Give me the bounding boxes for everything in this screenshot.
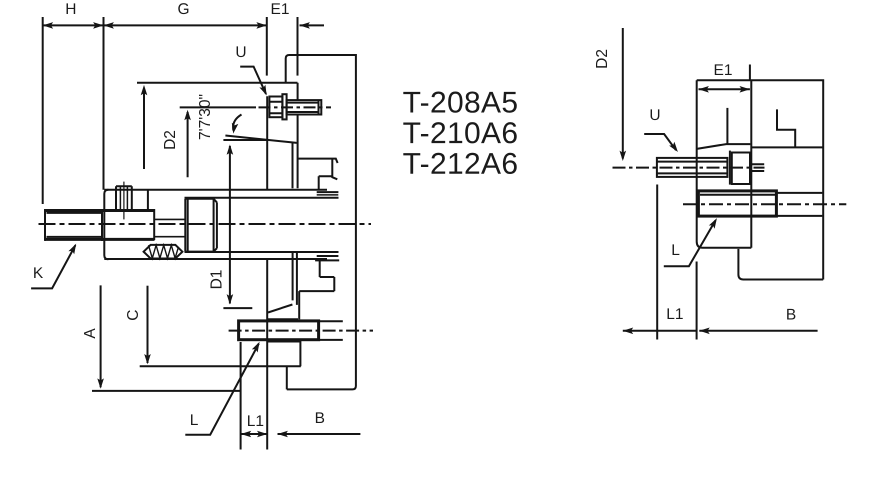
- body outline top/right: [697, 80, 824, 279]
- hex nut of stud U: [269, 97, 282, 118]
- stud centerline solid part: [180, 106, 256, 108]
- svg-text:C: C: [125, 309, 142, 320]
- L1 left extension line: [240, 342, 242, 450]
- svg-text:L1: L1: [247, 413, 264, 430]
- bore line outer bottom: [104, 258, 327, 260]
- svg-text:T-210A6: T-210A6: [403, 117, 519, 150]
- dim E1 outside arrow: [300, 24, 325, 26]
- bolt hole lines: [319, 321, 343, 340]
- svg-text:A: A: [82, 328, 99, 339]
- dim G extension line: [103, 17, 105, 190]
- svg-text:7'7'30": 7'7'30": [197, 94, 214, 140]
- front face short line bottom: [317, 255, 339, 257]
- spigot lines bottom: [293, 252, 297, 305]
- front face short line top: [317, 191, 339, 193]
- L leader right: [664, 221, 716, 267]
- svg-text:D1: D1: [209, 270, 226, 290]
- tube end: [153, 209, 155, 240]
- counterbore edge: [729, 151, 731, 185]
- washer: [282, 94, 286, 119]
- staircase detail: [777, 109, 795, 147]
- internal vertical: [726, 108, 728, 144]
- stud centerline dash-dot: [259, 106, 332, 108]
- E1 right extension: [749, 65, 751, 81]
- L1 dim line with outside arrow: [623, 330, 697, 332]
- angle dim arrow line: [187, 112, 189, 177]
- L1 dim double arrow: [241, 433, 268, 435]
- dim line G: [104, 24, 267, 26]
- hole tail lines: [750, 164, 764, 171]
- bore line inner top: [185, 197, 339, 199]
- cam block hump: [147, 190, 149, 209]
- stud thread lines to nut: [154, 219, 185, 236]
- svg-text:L1: L1: [666, 306, 683, 323]
- top T-slot profile: [298, 159, 338, 190]
- step block 2: [738, 249, 823, 280]
- K leader: [31, 245, 75, 288]
- svg-text:G: G: [177, 1, 189, 18]
- dim H extension line left: [42, 17, 44, 204]
- spring element: [144, 245, 183, 259]
- svg-text:H: H: [65, 1, 76, 18]
- chuck body top edge + right edge + bottom-right: [286, 55, 356, 389]
- svg-text:T-208A5: T-208A5: [403, 87, 519, 120]
- B dim line: [278, 433, 361, 435]
- L1 extension lines right view: [657, 185, 696, 340]
- bottom taper line: [268, 305, 292, 313]
- taper line right view: [697, 144, 751, 149]
- lower screw thread line: [700, 194, 776, 196]
- draw bar shaft thick top edge: [45, 209, 155, 212]
- upper screw centerline: [613, 167, 765, 169]
- angle reference line: [223, 139, 267, 141]
- svg-text:L: L: [190, 412, 199, 429]
- draw bar shaft thick bottom edge: [45, 238, 155, 241]
- svg-text:E1: E1: [714, 62, 733, 79]
- division line: [751, 146, 823, 148]
- screw head: [732, 153, 750, 185]
- dim D2 right arrow line: [622, 28, 624, 159]
- cam block outline: [104, 190, 108, 259]
- svg-text:T-212A6: T-212A6: [403, 148, 519, 181]
- stud threaded shaft: [287, 100, 322, 114]
- taper line: [225, 136, 296, 143]
- svg-text:D2: D2: [162, 130, 179, 150]
- svg-text:E1: E1: [271, 1, 290, 18]
- lower screw centerline: [683, 203, 846, 205]
- dim line H: [43, 24, 104, 26]
- shaft step: [101, 209, 103, 241]
- svg-text:B: B: [786, 306, 796, 323]
- dim A arrow line: [100, 285, 102, 387]
- svg-text:L: L: [671, 242, 680, 259]
- A level line: [92, 390, 241, 392]
- adapter plate right edge: [297, 83, 299, 189]
- svg-text:U: U: [649, 107, 660, 124]
- adapter plate left edge lower: [266, 259, 268, 450]
- angle arc arrow: [233, 115, 241, 131]
- bore line inner bottom: [185, 251, 339, 253]
- E1 extension line left: [266, 17, 268, 76]
- body left edge with fillet: [697, 80, 752, 248]
- shaft thread lines: [47, 213, 103, 237]
- B dim line right: [699, 330, 817, 332]
- svg-text:B: B: [315, 410, 325, 427]
- C level line / step line: [140, 365, 301, 367]
- bottom T-slot profile: [299, 260, 339, 366]
- svg-text:D2: D2: [594, 49, 611, 69]
- bore line outer top: [104, 189, 327, 191]
- svg-text:U: U: [235, 44, 246, 61]
- upper screw shaft: [657, 158, 728, 177]
- spigot line upper: [292, 142, 294, 189]
- lower screw (thick): [698, 191, 776, 216]
- main axis centerline: [39, 223, 372, 225]
- lower hole lines: [776, 193, 822, 216]
- bolt hole top edge in plate: [267, 318, 298, 320]
- D1 tick line: [223, 307, 252, 309]
- cam knob: [116, 186, 132, 209]
- E1 dim arrows: [699, 88, 750, 90]
- dim D2 arrow line: [143, 88, 145, 169]
- internal vertical line (E1 depth): [750, 80, 752, 248]
- E1 extension line right: [297, 17, 299, 76]
- dim D1 line with both arrows: [229, 146, 231, 304]
- draw nut: [185, 199, 217, 252]
- bolt hole bottom edge in plate: [267, 341, 300, 343]
- lower mounting bolt (thick): [239, 321, 319, 340]
- front face short line 2: [317, 194, 339, 196]
- U leader right: [644, 134, 676, 150]
- boss line / D2 reference line: [137, 82, 298, 84]
- lower bolt centerline: [229, 330, 373, 332]
- dim C arrow line: [147, 286, 149, 363]
- svg-text:K: K: [33, 265, 44, 282]
- L leader: [185, 344, 258, 435]
- adapter plate left edge upper: [266, 96, 268, 190]
- shaft left end: [44, 209, 46, 241]
- U leader left: [240, 67, 266, 94]
- step vertical to body bottom: [286, 366, 288, 389]
- knob centerline: [123, 182, 125, 220]
